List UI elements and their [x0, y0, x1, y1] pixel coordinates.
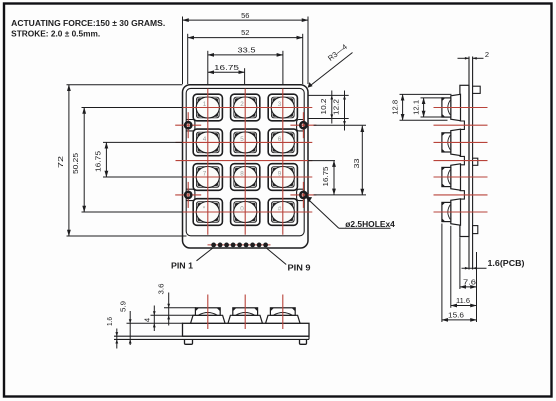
svg-text:12.2: 12.2: [332, 99, 341, 115]
svg-text:33.5: 33.5: [238, 46, 256, 55]
side view red centerlines: [434, 108, 488, 213]
svg-text:1.6: 1.6: [105, 317, 114, 326]
front view inner housing outline: [186, 88, 304, 235]
side view housing: [460, 85, 469, 236]
red horizontal centerline row 4: [176, 211, 313, 213]
red horizontal centerline row 1: [176, 107, 313, 109]
bottom view key button 1: [191, 295, 225, 330]
dimension 33: [361, 126, 363, 195]
dimension 12.1: [423, 98, 425, 117]
dimension 10.2: [331, 91, 333, 124]
side view extension line pin tip: [476, 252, 478, 322]
corner radius callout R3-4: [310, 53, 353, 87]
svg-text:4: 4: [142, 318, 151, 322]
extension line center axis right: [308, 160, 335, 162]
dimension 12.8: [402, 94, 404, 120]
svg-text:2: 2: [485, 50, 489, 59]
dimension 2 extension: [458, 57, 470, 59]
svg-text:52: 52: [241, 28, 249, 37]
dimension 5.9: [129, 311, 131, 345]
svg-text:7.6: 7.6: [463, 277, 476, 286]
mounting hole H4 with boss: [290, 182, 316, 208]
dimension 16.75 top extension line: [244, 68, 246, 84]
red horizontal centerline row 2: [176, 141, 313, 143]
keypad button K6 (6): [268, 129, 297, 156]
extension line hole row 1 right: [314, 124, 366, 126]
keypad button K10 (*): [193, 199, 222, 226]
svg-text:56: 56: [241, 11, 249, 20]
red horizontal center axis: [176, 160, 313, 162]
dimension 7.6: [460, 286, 477, 288]
svg-text:12.8: 12.8: [391, 100, 400, 115]
svg-text:ACTUATING FORCE:150 ± 30 GRA: ACTUATING FORCE:150 ± 30 GRAMS.: [11, 19, 165, 28]
bottom view housing body: [183, 323, 310, 336]
dimension 15.6: [442, 319, 477, 321]
keypad button K3 (3): [268, 94, 297, 121]
svg-text:1.6(PCB): 1.6(PCB): [488, 259, 525, 268]
bottom view PCB: [114, 336, 309, 339]
bottom view extension line cap top: [164, 307, 196, 309]
side view key bump 4: [442, 199, 461, 225]
front view outer housing outline: [183, 85, 309, 248]
svg-text:PIN 9: PIN 9: [288, 263, 312, 272]
dimension 52 extension lines: [187, 34, 189, 84]
svg-text:15.6: 15.6: [448, 311, 464, 320]
side view middle clip nub: [473, 158, 478, 165]
svg-text:16.75: 16.75: [93, 151, 102, 172]
dimension 12.8 extension lines: [400, 93, 452, 95]
dimension 72 extension lines: [67, 84, 183, 86]
keypad button K9 (9): [268, 164, 297, 191]
dimension 12.2: [344, 91, 346, 131]
side view bottom clip nub: [473, 226, 478, 234]
keypad button K4 (4): [193, 129, 222, 156]
dimension 50.25 extension lines: [82, 107, 183, 109]
svg-text:16.75: 16.75: [321, 167, 330, 187]
svg-text:16.75: 16.75: [214, 63, 239, 72]
svg-text:PIN 1: PIN 1: [171, 261, 194, 270]
bottom view key button 2: [228, 295, 262, 330]
bottom view key button 3: [266, 295, 300, 330]
dimension 3.6: [168, 293, 170, 326]
bottom view right foot: [300, 340, 307, 344]
side view extension line cap face: [441, 224, 443, 323]
side view key bump 2: [442, 129, 461, 155]
dimension 12.1 extension lines: [421, 97, 444, 99]
mounting hole H2 with boss: [290, 112, 316, 138]
svg-text:5.9: 5.9: [118, 301, 127, 312]
extension line 10.2 lower reference: [308, 118, 349, 120]
keypad button K11 (0): [231, 199, 260, 226]
red vertical centerline column 1: [207, 89, 209, 235]
keypad button K8 (8): [231, 164, 260, 191]
dimension 50.25: [83, 108, 85, 213]
dimension 16.75 top: [208, 71, 245, 73]
side view PCB: [469, 57, 473, 270]
keypad button K1 (1): [193, 94, 222, 121]
dimension 52: [188, 37, 303, 39]
bottom view extension line body top: [127, 322, 184, 324]
keypad button K7 (7): [193, 164, 222, 191]
dimension 16.75 right: [333, 161, 335, 195]
dimension 33.5 extension lines: [207, 51, 209, 84]
dimension 4: [153, 306, 155, 332]
svg-text:STROKE: 2.0 ± 0.5mm.: STROKE: 2.0 ± 0.5mm.: [11, 30, 100, 39]
dimension 16.75 left: [105, 142, 107, 177]
side view extension line shoulder: [450, 226, 452, 308]
dimension 1.6: [116, 329, 118, 349]
side view key bump 1: [442, 94, 461, 120]
dimension 56 extension lines: [182, 17, 184, 85]
red horizontal centerline row 3: [176, 176, 313, 178]
dimension 33.5: [208, 54, 283, 56]
svg-text:10.2: 10.2: [319, 99, 328, 115]
hole callout 2.5HOLEx4 leader: [307, 198, 339, 228]
svg-text:50.25: 50.25: [71, 153, 80, 174]
svg-text:12.1: 12.1: [412, 100, 421, 115]
svg-text:72: 72: [56, 156, 65, 168]
red vertical centerline column 3: [282, 89, 284, 235]
keypad button K2 (2): [231, 94, 260, 121]
dimension 56: [183, 19, 309, 21]
bottom view left foot: [185, 340, 193, 344]
extension line hole row 2 right: [314, 194, 366, 196]
PIN 9 label: [266, 248, 286, 265]
keypad button K12 (#): [268, 199, 297, 226]
dimension 1.6 PCB: [462, 267, 487, 269]
bottom view extension line shoulder: [151, 314, 196, 316]
mounting hole H1 with boss: [175, 112, 201, 138]
side view top clip tab: [473, 86, 481, 93]
red vertical centerline column 2: [244, 89, 246, 235]
svg-text:11.6: 11.6: [456, 296, 470, 305]
svg-text:3.6: 3.6: [156, 284, 165, 295]
side view extension line body face: [459, 237, 461, 289]
dimension 72: [68, 85, 70, 236]
dimension 11.6: [451, 305, 477, 307]
side view housing retention notches: [459, 121, 465, 199]
side view key bump 3: [442, 164, 461, 190]
keypad button K5 (5): [231, 129, 260, 156]
extension line button top edge right: [308, 94, 349, 96]
dimension 16.75 left extension lines: [103, 141, 183, 143]
connector pins 1-9: [208, 243, 271, 248]
svg-text:ø2.5HOLEx4: ø2.5HOLEx4: [345, 220, 395, 229]
mounting hole H3 with boss: [175, 182, 201, 208]
PIN 1 label: [197, 248, 214, 261]
svg-text:33: 33: [352, 159, 361, 169]
